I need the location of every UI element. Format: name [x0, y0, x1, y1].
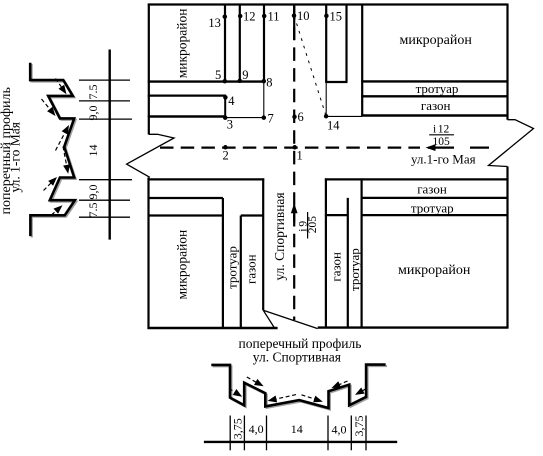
- street east edge lower: [325, 178, 327, 328]
- svg-text:9,0: 9,0: [86, 106, 100, 121]
- svg-text:тротуар: тротуар: [347, 248, 362, 291]
- strip line тротуар TL: [148, 94, 226, 96]
- bottom of 15 column: [325, 81, 347, 83]
- arrow тротуар top slope: [56, 79, 67, 95]
- svg-text:7.5: 7.5: [86, 203, 100, 218]
- svg-text:105: 105: [433, 136, 451, 148]
- svg-text:3,75: 3,75: [352, 416, 366, 437]
- svg-text:9: 9: [242, 68, 248, 82]
- point 11: [262, 14, 267, 19]
- street east edge upper col: [325, 5, 327, 83]
- BL газон column top: [241, 214, 263, 216]
- top border: [148, 3, 508, 5]
- svg-text:13: 13: [208, 16, 221, 30]
- street edge south BR (block BR top): [325, 178, 509, 180]
- point 12: [238, 14, 243, 19]
- slope arrow on ул.Спортивная pointing north: [291, 203, 298, 222]
- svg-text:15: 15: [330, 10, 343, 24]
- dotted diagonal 10 to 14: [294, 16, 326, 116]
- svg-text:1: 1: [297, 149, 303, 163]
- column line 12-9: [239, 5, 241, 82]
- segment 4 line: [224, 97, 226, 117]
- street west edge upper 11-8: [263, 5, 265, 82]
- column line right of 15: [345, 5, 347, 83]
- svg-text:2: 2: [223, 149, 229, 163]
- arrow тротуар bottom slope: [52, 205, 63, 215]
- thin line 14 to газон box: [326, 115, 362, 117]
- point 6: [292, 115, 297, 120]
- svg-text:микрорайон: микрорайон: [398, 263, 471, 278]
- arrow road lower half: [63, 147, 70, 174]
- BR газон column top: [325, 214, 348, 216]
- break symbol west: [127, 134, 174, 177]
- survey points dots: [223, 13, 329, 149]
- svg-text:4: 4: [228, 94, 235, 108]
- left edge upper (block TL): [148, 4, 150, 135]
- arrow road left half: [268, 395, 296, 403]
- svg-text:12: 12: [243, 10, 256, 24]
- point 9: [238, 79, 243, 84]
- block TR left edge: [361, 5, 363, 116]
- centerline ул.Спортивная dashed: [293, 6, 295, 320]
- bottom profile ticks: [230, 416, 366, 451]
- street edge south BL (block BL top): [148, 178, 265, 180]
- right edge lower: [506, 167, 508, 329]
- point 14: [324, 114, 329, 119]
- svg-text:газон: газон: [421, 98, 451, 113]
- arrow тротуар left slope: [229, 389, 242, 397]
- bottom profile baseline: [204, 441, 397, 443]
- svg-text:3,75: 3,75: [231, 418, 245, 439]
- break symbol south short: [263, 310, 274, 328]
- bottom profile ground line: [211, 365, 385, 408]
- bottom profile ground shadow: [213, 366, 387, 409]
- point 13: [223, 14, 228, 19]
- svg-text:ул. Спортивная: ул. Спортивная: [253, 350, 341, 365]
- svg-text:тротуар: тротуар: [224, 246, 239, 289]
- block TR микрорайон bottom: [361, 80, 507, 82]
- svg-text:5: 5: [215, 68, 221, 82]
- svg-text:14: 14: [291, 422, 303, 436]
- svg-text:4,0: 4,0: [332, 422, 347, 436]
- slope arrow on ул.1-го Мая pointing west: [426, 144, 455, 151]
- BR блок left edge: [361, 178, 363, 327]
- point 8: [262, 79, 267, 84]
- break symbol east: [489, 120, 534, 167]
- svg-text:i: i: [433, 124, 436, 136]
- left profile ticks: [79, 80, 132, 217]
- street west edge lower: [262, 178, 264, 310]
- point 15: [324, 14, 329, 19]
- svg-text:газон: газон: [243, 254, 258, 284]
- point 2: [223, 145, 228, 150]
- svg-text:микрорайон: микрорайон: [400, 33, 473, 48]
- bottom profile dimension labels: [231, 416, 367, 440]
- svg-text:11: 11: [268, 10, 280, 24]
- thin line 14 vertical: [325, 82, 327, 116]
- point 10: [292, 13, 297, 18]
- left profile dimension labels (rotated): [86, 85, 100, 218]
- svg-text:газон: газон: [417, 182, 447, 197]
- street edge north TR (газон box bottom): [361, 114, 507, 116]
- point 5: [223, 79, 228, 84]
- BL тротуар column left: [222, 198, 224, 329]
- right edge upper: [506, 4, 508, 120]
- arrow тротуар right slope: [355, 388, 366, 395]
- arrow газон right slope: [332, 381, 348, 388]
- left edge lower (block BL): [147, 178, 149, 330]
- svg-text:3: 3: [227, 118, 233, 132]
- arrow газон top slope: [42, 99, 56, 116]
- arrow газон bottom slope: [44, 177, 58, 191]
- BL газон column left: [240, 216, 242, 330]
- svg-text:газон: газон: [328, 252, 343, 282]
- strip line тротуар TR bottom: [361, 95, 507, 97]
- BL газон strip bottom: [148, 197, 223, 199]
- BR тротуар strip bottom right part: [361, 214, 508, 216]
- svg-text:10: 10: [297, 9, 310, 23]
- svg-text:тротуар: тротуар: [416, 81, 459, 96]
- svg-text:4,0: 4,0: [249, 422, 264, 436]
- svg-text:12: 12: [438, 124, 450, 136]
- svg-text:тротуар: тротуар: [411, 200, 454, 215]
- svg-text:7.5: 7.5: [86, 85, 100, 100]
- centerline ул.1-го Мая dashed: [160, 147, 420, 149]
- point number labels: [208, 9, 342, 163]
- svg-text:ул. 1-го Мая: ул. 1-го Мая: [8, 122, 23, 192]
- point 1: [292, 145, 297, 150]
- bottom edge right part: [318, 326, 509, 328]
- thin line 8 to 7: [263, 82, 265, 118]
- BL тротуар strip bottom: [148, 214, 223, 216]
- fraction i9/205 (rotated): [297, 212, 318, 239]
- BR газон box bottom: [361, 197, 508, 199]
- svg-text:ул. Спортивная: ул. Спортивная: [272, 192, 287, 280]
- BR тротуар column left: [347, 198, 349, 328]
- point 4: [223, 95, 228, 100]
- left profile baseline: [108, 50, 110, 240]
- svg-text:8: 8: [266, 76, 272, 90]
- svg-text:9,0: 9,0: [86, 185, 100, 200]
- point 7: [262, 115, 267, 120]
- thin line 3 to 7: [225, 117, 264, 119]
- svg-text:ул.1-го Мая: ул.1-го Мая: [411, 152, 476, 167]
- svg-text:14: 14: [86, 145, 100, 157]
- bottom edge left part: [148, 327, 278, 329]
- street edge north TL (газон bottom): [148, 115, 226, 117]
- break symbol south long: [263, 310, 318, 328]
- svg-text:14: 14: [327, 119, 340, 133]
- svg-text:микрорайон: микрорайон: [175, 9, 190, 79]
- column line 13-5: [224, 5, 226, 82]
- svg-text:205: 205: [307, 216, 319, 234]
- arrow газон left slope: [247, 377, 264, 386]
- svg-text:микрорайон: микрорайон: [175, 230, 190, 300]
- block TL микрорайон bottom: [148, 80, 265, 82]
- point 3: [223, 115, 228, 120]
- svg-text:6: 6: [298, 110, 304, 124]
- fraction i12/105: [429, 124, 454, 148]
- arrow road upper half: [56, 125, 70, 151]
- svg-text:7: 7: [268, 112, 274, 126]
- arrow road right half: [302, 395, 323, 403]
- left profile ground line: [30, 63, 75, 236]
- left profile ground shadow: [32, 64, 77, 237]
